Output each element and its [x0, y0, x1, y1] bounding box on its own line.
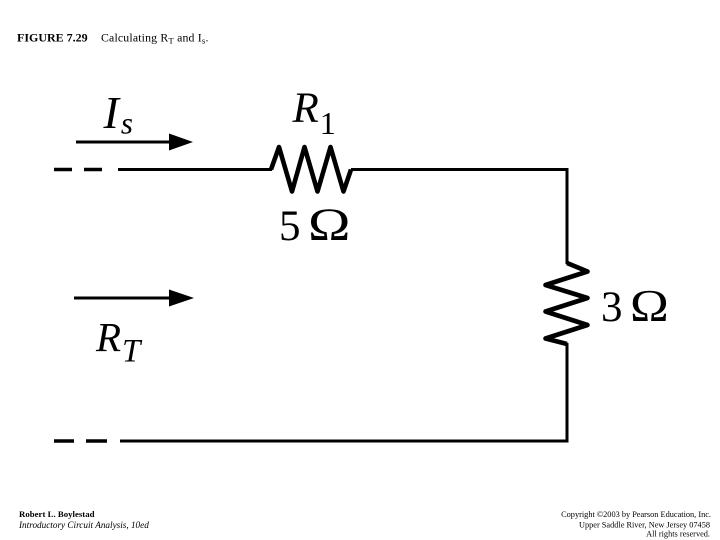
svg-text:5: 5: [279, 203, 301, 250]
figure caption: FIGURE 7.29 Calculating RT and Is.: [17, 31, 209, 46]
svg-text:Introductory Circuit Analysis,: Introductory Circuit Analysis, 10ed: [18, 520, 149, 530]
wire: bottom-left dashed open lead: [54, 439, 107, 443]
svg-text:Upper Saddle River, New Jersey: Upper Saddle River, New Jersey 07458: [579, 521, 710, 530]
svg-text:R1: R1: [292, 85, 336, 141]
wire: right vertical upper segment: [566, 168, 569, 264]
wire: top-left dashed open lead: [54, 168, 102, 172]
svg-text:RT: RT: [95, 314, 143, 370]
wire: right vertical lower segment: [566, 343, 569, 443]
svg-text:Robert L. Boylestad: Robert L. Boylestad: [19, 509, 95, 519]
wire: top horizontal from lead to R1: [118, 168, 272, 171]
svg-text:Ω: Ω: [308, 199, 351, 251]
resistor 3 ohm (vertical zigzag): [546, 263, 588, 344]
wire: top horizontal from R1 to right corner: [351, 168, 568, 171]
svg-text:Calculating RT and Is.: Calculating RT and Is.: [101, 31, 209, 46]
svg-text:FIGURE 7.29: FIGURE 7.29: [17, 31, 88, 45]
svg-text:Copyright ©2003 by Pearson Edu: Copyright ©2003 by Pearson Education, In…: [561, 510, 711, 519]
current arrow Is: [76, 134, 193, 151]
footer left: author credit: [18, 509, 149, 530]
svg-text:3: 3: [601, 284, 623, 331]
footer right: copyright notice: [561, 510, 711, 539]
arrow RT (total resistance direction): [74, 290, 194, 307]
wire: bottom horizontal: [120, 440, 568, 443]
resistor R1 (horizontal zigzag): [271, 147, 351, 192]
svg-text:Is: Is: [103, 87, 133, 141]
svg-text:Ω: Ω: [630, 280, 669, 331]
svg-text:All rights reserved.: All rights reserved.: [646, 530, 710, 539]
